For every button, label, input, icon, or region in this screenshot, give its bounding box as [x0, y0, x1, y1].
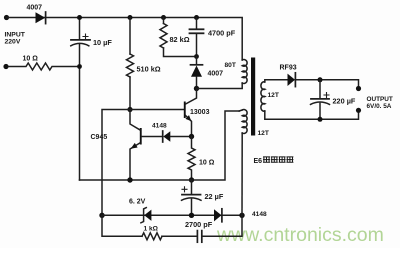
svg-text:1 kΩ: 1 kΩ	[144, 225, 159, 232]
resistor R2 510k	[127, 54, 134, 77]
svg-text:22 µF: 22 µF	[205, 192, 224, 201]
svg-text:6V/0. 5A: 6V/0. 5A	[367, 103, 392, 110]
junction clamp node	[194, 54, 199, 59]
svg-text:82 kΩ: 82 kΩ	[170, 35, 190, 44]
svg-text:OUTPUT: OUTPUT	[367, 96, 393, 103]
wire 510k bottom to node A	[129, 77, 131, 110]
wire 82k top	[163, 18, 165, 24]
wire feedback top	[239, 110, 242, 111]
junction top rail / left vertical	[77, 15, 82, 20]
diode D1 4007 (series input)	[36, 12, 46, 24]
capacitor C3 22uF electrolytic	[182, 180, 202, 215]
svg-text:2700 pF: 2700 pF	[185, 220, 213, 229]
svg-text:220V: 220V	[5, 39, 21, 46]
svg-text:RF93: RF93	[280, 64, 297, 71]
svg-text:12T: 12T	[268, 92, 279, 99]
junction 220uF bottom	[318, 117, 323, 122]
junction top rail / 510k	[128, 15, 133, 20]
svg-text:12T: 12T	[258, 130, 269, 137]
node G junction (feedback bottom)	[239, 213, 244, 218]
node E junction (22uF bottom)	[189, 213, 194, 218]
junction C945 emitter / y180	[127, 177, 132, 182]
junction top rail / 82k	[161, 15, 166, 20]
transistor Q1 C945	[130, 110, 162, 181]
transistor Q2 13003	[184, 89, 197, 137]
zener D4 6.2V (cathode left)	[141, 208, 152, 223]
transformer feedback winding 12T	[242, 110, 247, 134]
diode D5 4148 (bottom, anode left)	[214, 209, 222, 222]
capacitor C4 2700pF	[197, 231, 201, 243]
wire 82k bottom to node	[164, 48, 197, 57]
capacitor C5 220uF electrolytic	[311, 80, 330, 120]
node F junction (bottom left)	[99, 213, 104, 218]
input terminal L (bottom)	[3, 64, 8, 69]
wire node A to left branch down	[102, 110, 130, 216]
wire y180 rail	[80, 111, 240, 180]
svg-text:www.cntronics.com: www.cntronics.com	[216, 224, 384, 246]
svg-text:6. 2V: 6. 2V	[129, 198, 146, 205]
capacitor C1 10uF electrolytic	[71, 34, 90, 46]
output terminal bottom	[356, 108, 361, 113]
wire node A to 13003 base	[130, 109, 184, 111]
svg-text:4148: 4148	[252, 211, 267, 218]
svg-text:10 Ω: 10 Ω	[23, 56, 39, 63]
junction 220uF top	[318, 77, 323, 82]
svg-text:4148: 4148	[152, 123, 167, 130]
wire 4700pF bottom	[196, 34, 198, 57]
svg-text:220 µF: 220 µF	[333, 96, 356, 105]
node B junction	[189, 134, 194, 139]
svg-text:E6: E6	[254, 158, 263, 165]
wire 4007 bottom to node C	[196, 77, 198, 89]
diode D6 RF93	[288, 73, 296, 87]
label OUTPUT 6V/0.5A	[367, 96, 393, 110]
wire secondary bottom / output bottom	[265, 110, 359, 119]
svg-text:INPUT: INPUT	[5, 32, 26, 39]
svg-text:10 µF: 10 µF	[93, 38, 112, 47]
resistor R5 1k	[142, 233, 162, 240]
resistor R3 82k	[160, 24, 167, 49]
wire output top	[295, 80, 358, 89]
input terminal L (top)	[4, 15, 9, 20]
svg-text:510 kΩ: 510 kΩ	[137, 65, 161, 74]
svg-text:C945: C945	[91, 134, 108, 141]
wire lower rail y236	[102, 215, 242, 236]
wire top rail	[7, 18, 243, 61]
node A junction	[127, 107, 132, 112]
svg-text:4700 pF: 4700 pF	[208, 28, 236, 37]
transformer primary winding 80T	[242, 60, 247, 84]
diode D3 4148 (base clamp, cathode left)	[163, 131, 192, 142]
wire 4007 top / node	[196, 57, 198, 65]
resistor 10 ohm (input series)	[9, 63, 80, 70]
wire secondary top	[265, 80, 288, 82]
output terminal top	[356, 86, 361, 91]
diode D2 4007 (clamp, pointing up)	[191, 65, 203, 77]
wire bottom rail y215	[102, 214, 242, 216]
wire 4700pF top	[196, 18, 198, 29]
wire feedback bottom to node G	[241, 133, 243, 215]
svg-text:4007: 4007	[27, 5, 43, 12]
node C junction (collector / primary)	[194, 86, 199, 91]
wire left vertical	[79, 18, 81, 181]
wire 510k top	[129, 18, 131, 55]
transformer secondary winding 12T	[261, 82, 265, 111]
wire node C to primary bottom	[197, 83, 243, 89]
junction top rail / 4700pF	[194, 15, 199, 20]
resistor R4 10 ohm emitter	[188, 137, 195, 181]
svg-text:13003: 13003	[190, 109, 210, 116]
svg-text:4007: 4007	[208, 71, 224, 78]
label INPUT 220V	[5, 32, 26, 46]
transformer core	[251, 58, 255, 136]
node D junction	[189, 177, 194, 182]
capacitor C2 4700pF	[190, 29, 204, 33]
svg-text:10 Ω: 10 Ω	[199, 159, 215, 166]
label E6 core (CJK)	[254, 157, 293, 165]
junction 10ohm / left vertical	[77, 64, 82, 69]
svg-text:80T: 80T	[225, 62, 236, 69]
